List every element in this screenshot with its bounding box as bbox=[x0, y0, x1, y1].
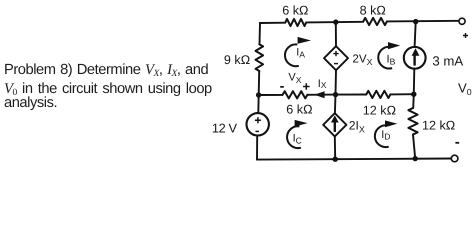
svg-text:IA: IA bbox=[296, 46, 305, 59]
svg-text:12 kΩ: 12 kΩ bbox=[422, 119, 455, 133]
svg-text:3 mA: 3 mA bbox=[432, 54, 463, 69]
plus top right terminal bbox=[463, 33, 468, 38]
wire 6k-mid to middle node bbox=[307, 94, 335, 96]
dependent current source F1 2Ix bbox=[323, 113, 346, 136]
arrow inside 2Ix diamond bbox=[331, 115, 339, 131]
minus left of Vx bbox=[280, 86, 284, 88]
svg-text:12 V: 12 V bbox=[212, 120, 238, 135]
wire 6k to 8k bbox=[306, 21, 363, 24]
arrow inside 3mA source bbox=[412, 48, 420, 65]
wire diamond2 to bottom bbox=[334, 136, 336, 159]
current Ix direction arrowhead on middle wire bbox=[314, 91, 324, 98]
plus/minus inside 12V source bbox=[255, 117, 261, 131]
resistor R5 12kΩ middle bbox=[366, 91, 390, 98]
svg-text:IX: IX bbox=[318, 78, 327, 90]
svg-text:2IX: 2IX bbox=[349, 119, 365, 135]
terminal bottom right bbox=[451, 155, 458, 162]
node: bottom / middle column bbox=[333, 157, 338, 162]
svg-text:VX: VX bbox=[288, 72, 301, 86]
problem statement text bbox=[4, 62, 208, 79]
wire diamond1 to middle wire bbox=[335, 70, 336, 113]
loop current arrow IC bbox=[287, 120, 307, 148]
svg-text:6 kΩ: 6 kΩ bbox=[286, 103, 312, 117]
wire 8k to top terminal bbox=[387, 20, 459, 23]
loop current arrow ID bbox=[375, 120, 397, 147]
minus bottom right terminal bbox=[455, 142, 459, 144]
wire left rail upper bbox=[259, 23, 262, 44]
node: middle wire / middle column bbox=[333, 92, 338, 97]
current source I1 3 mA bbox=[404, 47, 426, 69]
plus/minus inside 2Vx diamond bbox=[333, 51, 338, 64]
svg-text:9 kΩ: 9 kΩ bbox=[224, 53, 250, 67]
node: middle wire / right column bbox=[411, 92, 416, 97]
wire top left corner to 6k bbox=[260, 22, 286, 24]
voltage source V1 12 V bbox=[247, 113, 269, 135]
wire middle column top bbox=[335, 22, 337, 46]
svg-text:IB: IB bbox=[387, 53, 396, 66]
node: top / right column bbox=[413, 19, 418, 24]
resistor R2 8kΩ top-right bbox=[363, 18, 387, 25]
loop current arrow IA bbox=[285, 37, 311, 66]
svg-text:2VX: 2VX bbox=[352, 52, 372, 67]
svg-text:ID: ID bbox=[381, 129, 390, 141]
wire middle left bbox=[259, 94, 283, 96]
loop current arrow IB bbox=[378, 42, 400, 68]
wire right column top bbox=[415, 22, 416, 47]
resistor R6 12kΩ right bbox=[408, 108, 417, 135]
wire middle node to 12k-mid bbox=[336, 94, 367, 96]
svg-text:8 kΩ: 8 kΩ bbox=[360, 4, 386, 18]
resistor R3 9kΩ left bbox=[256, 44, 264, 71]
dependent voltage source E1 2Vx bbox=[324, 46, 348, 70]
node: left rail / middle wire bbox=[256, 92, 261, 97]
node: bottom / right column bbox=[413, 156, 418, 161]
wire 12V to bottom bbox=[256, 136, 258, 160]
wire bottom bbox=[257, 159, 451, 160]
terminal top right bbox=[459, 18, 465, 24]
wire 9k to 12V source bbox=[257, 71, 260, 113]
node: top / middle column bbox=[333, 19, 338, 24]
svg-text:V0: V0 bbox=[458, 80, 472, 97]
wire 12k-right to bottom bbox=[413, 135, 415, 159]
wire 12k-mid to right node bbox=[390, 93, 413, 95]
plus right of Vx bbox=[303, 83, 310, 90]
wire 3mA to middle wire bbox=[413, 69, 414, 108]
junction dots bbox=[256, 19, 418, 162]
svg-text:12 kΩ: 12 kΩ bbox=[363, 103, 396, 117]
resistor R1 6kΩ top-left bbox=[285, 19, 306, 26]
resistor R4 6kΩ middle bbox=[283, 91, 308, 98]
svg-text:6 kΩ: 6 kΩ bbox=[282, 3, 308, 17]
svg-text:IC: IC bbox=[293, 132, 302, 145]
